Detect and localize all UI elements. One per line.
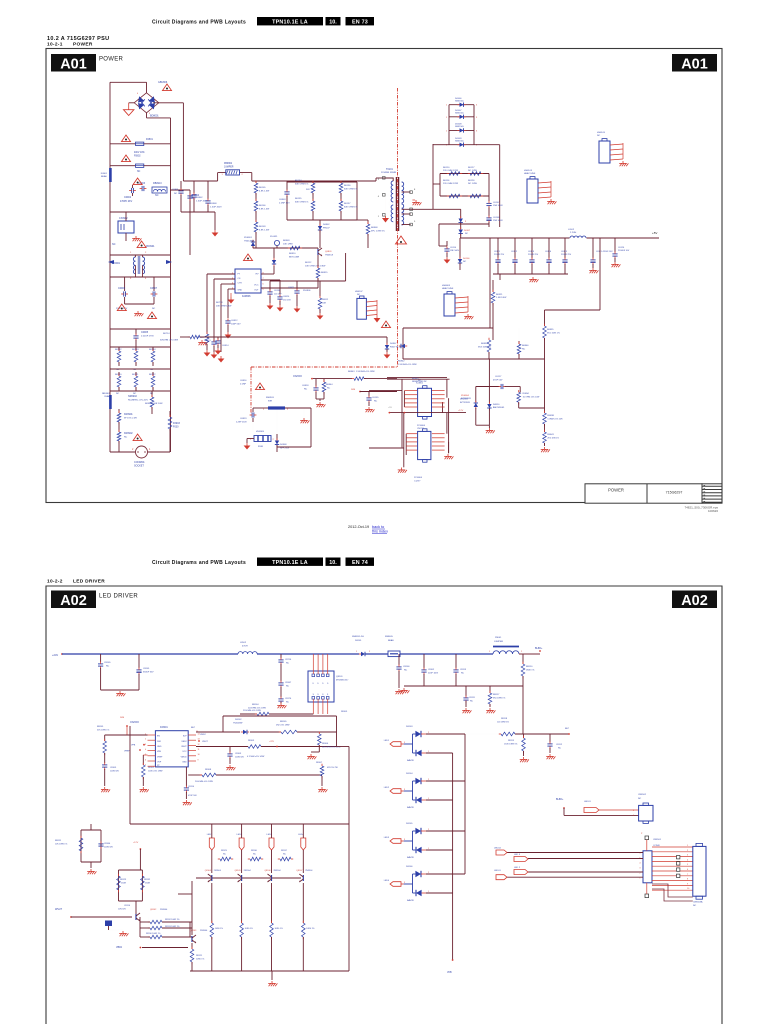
svg-text:R0132: R0132 [115, 349, 122, 351]
svg-text:CNY0?: CNY0? [417, 428, 425, 430]
optocoupler IC0801 frame [401, 379, 403, 447]
svg-text:10R0 1%: 10R0 1% [306, 928, 314, 930]
svg-text:47UF 50V: 47UF 50V [493, 379, 503, 381]
wire D8104 bottom [426, 799, 453, 801]
svg-text:R0841: R0841 [547, 434, 554, 436]
svg-text:LED04: LED04 [494, 848, 501, 850]
svg-text:715G6297: 715G6297 [666, 491, 683, 495]
svg-text:C0907: C0907 [150, 287, 158, 290]
mosfet Q8101 [308, 671, 334, 702]
capacitor C8103b [549, 734, 551, 742]
svg-text:SB5150L: SB5150L [455, 126, 465, 128]
capacitor C0818 [315, 379, 317, 386]
svg-text:470P 50V: 470P 50V [188, 795, 197, 797]
resistor R8112 [150, 920, 162, 924]
bridge resistor R8130 [242, 858, 250, 860]
svg-text:NC: NC [152, 308, 156, 310]
svg-text:HS0803: HS0803 [442, 285, 451, 287]
svg-text:200OHM ±5% 1/8W: 200OHM ±5% 1/8W [195, 781, 213, 783]
svg-text:R8129: R8129 [221, 850, 228, 852]
svg-text:R0141: R0141 [132, 374, 139, 376]
svg-text:2K2 10W 1%: 2K2 10W 1% [547, 437, 559, 439]
svg-text:1NF 500V: 1NF 500V [493, 205, 503, 207]
ic left wires [207, 273, 235, 275]
svg-text:NC: NC [404, 670, 408, 672]
ground hatch mid [137, 311, 139, 313]
svg-text:NC: NC [374, 401, 378, 403]
svg-text:Q8101: Q8101 [336, 676, 343, 678]
svg-text:HEAT SINK: HEAT SINK [524, 172, 536, 175]
arrow left [108, 260, 114, 264]
ground varistor [246, 443, 248, 446]
wire rung 8 [110, 390, 170, 392]
svg-text:D0106: D0106 [463, 258, 470, 260]
svg-text:NC: NC [327, 388, 331, 390]
page 1 sheet label A01 right [672, 54, 717, 72]
svg-text:330UF 35V: 330UF 35V [143, 672, 154, 674]
snubber box bottom [287, 219, 357, 221]
resistor box secondary [439, 174, 441, 197]
feedback drop [522, 686, 524, 734]
capacitor C0808 [207, 181, 209, 199]
svg-text:JUMPER: JUMPER [224, 166, 234, 168]
top wire right [223, 715, 337, 717]
svg-text:220UF 25V: 220UF 25V [494, 254, 505, 256]
svg-text:R0134: R0134 [149, 349, 156, 351]
svg-text:Q8105: Q8105 [235, 870, 242, 872]
svg-text:VFB: VFB [157, 751, 162, 753]
svg-text:220 OHM 1/2W: 220 OHM 1/2W [443, 170, 459, 172]
svg-text:R0110: R0110 [443, 167, 450, 169]
optocoupler top wires [387, 377, 447, 379]
resistor grid col 2 top [152, 347, 154, 351]
svg-text:BL8D+: BL8D+ [556, 798, 564, 801]
svg-text:C0816: C0816 [240, 380, 247, 382]
svg-text:SOCKET: SOCKET [134, 465, 144, 468]
svg-text:POWER: POWER [608, 488, 624, 493]
wire D8104 top [426, 780, 465, 782]
ground hatch secondary [412, 199, 415, 201]
column resistor R8136 [302, 883, 304, 923]
connector CN8102 [639, 805, 653, 821]
svg-text:C8164: C8164 [104, 843, 111, 845]
svg-text:ZD0805: ZD0805 [460, 399, 469, 401]
right rail from bus [599, 238, 601, 310]
shunt TL0431 [274, 240, 279, 245]
wire D8105 top [426, 830, 465, 832]
svg-text:D8103: D8103 [406, 726, 413, 728]
wire q8103 net [191, 881, 193, 935]
svg-text:Q8106: Q8106 [265, 870, 272, 872]
svg-text:10-2-2: 10-2-2 [47, 579, 63, 585]
svg-text:DB0913: DB0913 [153, 182, 162, 185]
svg-text:R0133: R0133 [132, 349, 139, 351]
transistor Q8106 [271, 875, 273, 881]
svg-text:VCC: VCC [182, 751, 187, 753]
svg-text:OUT: OUT [254, 290, 259, 292]
svg-text:D8105: D8105 [406, 823, 413, 825]
capacitor C0903 [141, 186, 143, 191]
resistor R0835 [543, 326, 547, 338]
svg-text:BLP: BLP [565, 728, 570, 730]
svg-text:6.8K 1.5W: 6.8K 1.5W [259, 209, 270, 211]
svg-text:0.22UF 275V: 0.22UF 275V [141, 336, 154, 338]
jumper P8001 [493, 646, 519, 648]
svg-text:SB5150L: SB5150L [455, 113, 465, 115]
wire to C0904 [170, 189, 190, 191]
surge arrester NR0901 [109, 395, 112, 409]
svg-text:4.8K 1.5W: 4.8K 1.5W [259, 191, 270, 193]
svg-text:100P 50V: 100P 50V [231, 324, 241, 326]
svg-text:0R1 5% 2W: 0R1 5% 2W [327, 767, 338, 769]
svg-text:R0909: R0909 [283, 240, 290, 242]
diode D0509 [457, 144, 459, 146]
svg-text:C0814: C0814 [222, 345, 229, 347]
svg-text:C0117: C0117 [495, 376, 502, 378]
bead FB8005 [388, 651, 400, 657]
capacitor C8110 [185, 767, 187, 786]
svg-text:2N3904: 2N3904 [274, 870, 282, 872]
resistor R8113 [150, 926, 162, 930]
svg-text:C0821: C0821 [288, 287, 295, 289]
svg-text:IC8001: IC8001 [160, 726, 168, 729]
optocoupler IC0801 [418, 388, 432, 416]
capacitor C0821 [294, 290, 299, 292]
svg-text:2.2UH: 2.2UH [570, 232, 577, 234]
svg-text:ZD0806: ZD0806 [303, 290, 311, 292]
svg-text:100626: 100626 [708, 509, 718, 513]
svg-text:R0903 160R 10W: R0903 160R 10W [145, 403, 163, 405]
svg-text:BAV99: BAV99 [407, 856, 414, 859]
svg-text:R8130: R8130 [251, 850, 258, 852]
svg-text:60K OHM 1%: 60K OHM 1% [344, 207, 357, 209]
wire rung 5 [110, 254, 170, 256]
svg-text:10-2-1: 10-2-1 [47, 42, 63, 48]
resistor R0813 [206, 330, 208, 334]
warning triangle near bridge [163, 84, 172, 91]
svg-text:C8101: C8101 [143, 668, 150, 670]
secondary block top [433, 144, 449, 146]
svg-text:C8106: C8106 [403, 666, 410, 668]
svg-text:10.: 10. [329, 19, 337, 25]
branch to rail [519, 358, 545, 360]
svg-text:NC: NC [465, 233, 469, 235]
svg-text:220 OHM 1/2W: 220 OHM 1/2W [443, 183, 459, 185]
bridge resistor R8137 [272, 858, 281, 860]
svg-text:R8110 100R 1%: R8110 100R 1% [146, 933, 161, 935]
resistor grid col 1 bottom [135, 372, 137, 376]
svg-text:LED3: LED3 [384, 837, 390, 839]
connector CN8103A [693, 846, 706, 896]
svg-text:POWER: POWER [73, 42, 93, 48]
svg-text:C8113: C8113 [460, 669, 467, 671]
svg-text:220UF 25V: 220UF 25V [528, 254, 539, 256]
secondary top wire [411, 208, 433, 210]
svg-text:NR0843-NR 2W: NR0843-NR 2W [412, 381, 427, 383]
svg-text:6: 6 [145, 759, 146, 761]
svg-text:NC: NC [558, 748, 562, 750]
svg-text:R0832: R0832 [481, 343, 488, 345]
svg-text:MTD6N10G#: MTD6N10G# [336, 680, 349, 682]
svg-text:C0802: C0802 [196, 197, 203, 199]
vcc wire long [218, 336, 387, 338]
transistor Q8103 [191, 936, 193, 942]
svg-text:R0808: R0808 [371, 227, 378, 229]
vfb rail [452, 753, 454, 960]
anode bus [464, 734, 466, 874]
svg-text:1.5KOHM ±5% 1/8W: 1.5KOHM ±5% 1/8W [398, 364, 417, 366]
capacitor C8109 [102, 764, 107, 766]
capacitor C0802 [193, 181, 195, 193]
svg-text:R8109: R8109 [341, 711, 348, 713]
resistor R0841 [544, 424, 546, 432]
transistor Q8107 [302, 875, 304, 881]
svg-text:VBUT: VBUT [181, 746, 187, 748]
svg-text:2R2 ±5% 1/8W: 2R2 ±5% 1/8W [276, 725, 290, 727]
heatsink HS0803 [444, 294, 455, 316]
svg-text:+5V: +5V [388, 407, 392, 409]
capacitor C0110 [438, 224, 440, 246]
svg-text:OVP: OVP [157, 762, 162, 764]
svg-text:NC: NC [286, 663, 290, 665]
cn8103a maroon wires [652, 884, 693, 897]
svg-text:NC: NC [155, 194, 159, 197]
svg-text:NC: NC [124, 437, 128, 439]
svg-text:10K 1/8W 1%: 10K 1/8W 1% [55, 844, 67, 846]
capacitor C0812 [225, 320, 230, 322]
page 2 sheet label A02 left [51, 591, 96, 609]
svg-text:LED DRIVER: LED DRIVER [99, 594, 138, 600]
thermistor KR0901 [118, 409, 120, 413]
svg-text:FA0B06: FA0B06 [242, 295, 251, 298]
resistor R8114 [150, 935, 162, 939]
thermistor KR0902 [118, 428, 120, 432]
svg-text:10R0 1%: 10R0 1% [275, 928, 283, 930]
svg-text:NC: NC [693, 905, 697, 907]
svg-text:+12V: +12V [133, 842, 139, 844]
svg-text:R0142: R0142 [149, 374, 156, 376]
svg-text:SLP: SLP [183, 736, 187, 738]
svg-text:P8001: P8001 [495, 637, 502, 639]
svg-text:C8102: C8102 [428, 669, 435, 671]
svg-text:R8105: R8105 [280, 721, 287, 723]
capacitor C8111 [465, 686, 467, 696]
wire loop bottom [129, 726, 131, 824]
svg-text:PC0804: PC0804 [417, 425, 426, 427]
svg-text:10 OHM ±5% 10W: 10 OHM ±5% 10W [523, 396, 540, 398]
svg-text:R0109: R0109 [259, 226, 266, 228]
svg-text:D8106: D8106 [406, 866, 413, 868]
ic left verticals [206, 274, 208, 330]
svg-text:R8104: R8104 [252, 704, 259, 706]
ground transformer left [384, 194, 389, 196]
svg-text:12: 12 [198, 744, 200, 746]
svg-text:POWER XFMR: POWER XFMR [381, 172, 396, 174]
svg-text:VBD2: VBD2 [200, 734, 206, 736]
svg-text:EN 74: EN 74 [352, 560, 368, 566]
svg-text:R8137: R8137 [281, 850, 288, 852]
wire D8106 bottom [426, 892, 453, 894]
svg-text:1NF 500V: 1NF 500V [493, 220, 503, 222]
snubber box top [287, 181, 357, 183]
svg-text:R0136: R0136 [344, 185, 351, 187]
svg-text:C0902: C0902 [124, 196, 132, 199]
svg-text:SB5150L: SB5150L [455, 141, 465, 143]
capacitor C0902 [131, 188, 133, 193]
svg-text:10K OHM ±5% 1/8W: 10K OHM ±5% 1/8W [305, 266, 326, 268]
svg-text:Q8104: Q8104 [205, 870, 212, 872]
svg-text:Q8102: Q8102 [150, 909, 157, 911]
svg-text:NC: NC [304, 389, 308, 391]
svg-text:VBDJ: VBDJ [116, 946, 123, 949]
fuse F0802 [122, 155, 131, 162]
page 2 sheet label A02 right [672, 591, 717, 609]
wire right rail [170, 118, 172, 452]
bridge resistor R8129 [212, 858, 220, 860]
svg-text:1.5UF 450V: 1.5UF 450V [210, 207, 222, 209]
opto grounds [401, 468, 403, 470]
svg-text:HV0905: HV0905 [256, 431, 265, 433]
onoff wire [313, 378, 352, 380]
svg-text:C8111: C8111 [469, 697, 476, 699]
resistor grid col 0 top [118, 347, 120, 351]
resistor R8102 [142, 755, 144, 765]
wire rung 4 [110, 211, 170, 213]
svg-text:T0101: T0101 [386, 168, 393, 171]
svg-text:R8121: R8121 [196, 955, 203, 957]
transistor Q8104 [211, 875, 213, 881]
svg-text:CN8103A: CN8103A [693, 901, 703, 904]
svg-text:10K 1/8W: 10K 1/8W [283, 244, 294, 246]
capacitor C8114 [105, 921, 112, 927]
heatsink HS0107 [357, 298, 367, 319]
wire D8106 top [426, 873, 465, 875]
svg-text:VBUT: VBUT [202, 741, 208, 743]
capacitor C0905 [110, 328, 170, 330]
svg-text:NC: NC [112, 243, 116, 246]
capacitor C0108 [488, 213, 490, 216]
resistor grid col 2 bottom [152, 372, 154, 376]
bus 24V end [519, 653, 540, 655]
svg-text:2200UF 10V: 2200UF 10V [618, 250, 630, 252]
capacitor C0155 [368, 392, 370, 397]
ground zd [476, 424, 490, 426]
wire under caps [404, 685, 523, 687]
zener ZD0804 [475, 387, 477, 403]
svg-text:L0102: L0102 [568, 229, 575, 231]
svg-text:4: 4 [145, 749, 146, 751]
svg-text:R8118: R8118 [501, 718, 508, 720]
wire rung 6 [110, 276, 170, 278]
bus 24V segment 2 [257, 653, 359, 655]
warning onoff [256, 383, 265, 390]
resistor R0106 [255, 193, 257, 201]
svg-text:LED DRIVER: LED DRIVER [73, 579, 105, 585]
onoff red wire [126, 725, 128, 727]
svg-text:C8103: C8103 [235, 753, 242, 755]
svg-text:+22V: +22V [269, 741, 275, 743]
svg-text:NC: NC [286, 686, 290, 688]
resistor R8110 [522, 654, 524, 664]
svg-text:NC: NC [463, 261, 467, 263]
svg-text:LED01: LED01 [494, 870, 501, 872]
svg-text:FB8005: FB8005 [385, 636, 393, 638]
capacitor C8716 [280, 654, 282, 658]
svg-text:Q8103: Q8103 [190, 930, 197, 932]
svg-text:2012-Oct-19: 2012-Oct-19 [348, 525, 369, 529]
svg-text:PC0804: PC0804 [414, 477, 423, 479]
svg-text:BAV99: BAV99 [407, 806, 414, 809]
svg-text:60K OHM 1%: 60K OHM 1% [295, 202, 308, 204]
svg-text:C8176: C8176 [285, 698, 292, 700]
svg-text:2N3904: 2N3904 [160, 909, 168, 911]
resistor R0846 [518, 341, 520, 344]
resistor R0109 [255, 211, 257, 222]
heatsink HS0103 [527, 179, 538, 203]
svg-text:LED1: LED1 [384, 740, 390, 742]
svg-text:47UH: 47UH [242, 646, 248, 648]
ic IC8001 [155, 731, 188, 767]
capacitor C0811 [267, 291, 272, 293]
post inductor caps [592, 238, 594, 258]
svg-text:R8110: R8110 [526, 666, 533, 668]
svg-text:R0846: R0846 [522, 345, 529, 347]
svg-text:R8108: R8108 [205, 769, 212, 771]
svg-text:C12V7: C12V7 [414, 480, 421, 482]
resistor grid col 0 bottom [118, 372, 120, 376]
isolation dash horizontal [251, 366, 398, 368]
svg-text:LED01: LED01 [584, 801, 591, 803]
resistor R8117 [489, 686, 491, 693]
node wire [519, 407, 545, 409]
svg-text:22UF 100V: 22UF 100V [428, 673, 439, 675]
svg-text:R0845: R0845 [412, 378, 419, 380]
svg-text:JUMPER: JUMPER [494, 641, 503, 643]
svg-text:F0901: F0901 [101, 173, 108, 175]
svg-text:C0906: C0906 [118, 287, 126, 290]
capacitor C8176 [280, 687, 282, 697]
ferrite bead FB0901 [109, 168, 112, 182]
svg-text:R8102: R8102 [148, 767, 155, 769]
svg-text:C0121 470UF 16V: C0121 470UF 16V [596, 251, 613, 253]
capacitor C8106 [398, 654, 400, 665]
svg-text:D8101: D8101 [355, 640, 362, 642]
svg-text:36V: 36V [306, 189, 310, 191]
svg-text:C0808: C0808 [210, 203, 217, 205]
svg-text:GBU806: GBU806 [158, 81, 168, 84]
resistor R0136b [340, 182, 342, 183]
bus 24V segment 4 [400, 653, 493, 655]
resistor R8109 [340, 716, 342, 718]
svg-text:1.5KOHM ±5% 1/8W: 1.5KOHM ±5% 1/8W [356, 371, 375, 373]
resistor R0844 [323, 379, 325, 382]
diode D0508 [457, 129, 459, 131]
wire rung 7 [110, 346, 170, 348]
svg-text:BZT52B15: BZT52B15 [460, 402, 471, 404]
svg-text:LED 2: LED 2 [514, 867, 521, 869]
svg-text:7N65C8: 7N65C8 [325, 255, 334, 257]
wire D8103 bottom [426, 752, 453, 754]
diode D0802 [319, 220, 321, 226]
capacitor C0119 [499, 274, 501, 280]
svg-text:D0802: D0802 [323, 224, 330, 226]
svg-text:TPN10.1E LA: TPN10.1E LA [272, 19, 308, 25]
svg-text:C0905: C0905 [141, 331, 149, 334]
svg-text:R0116: R0116 [443, 180, 450, 182]
resistor R8106 [318, 734, 322, 745]
resistor R8123 [117, 876, 121, 890]
svg-text:A02: A02 [60, 593, 87, 609]
